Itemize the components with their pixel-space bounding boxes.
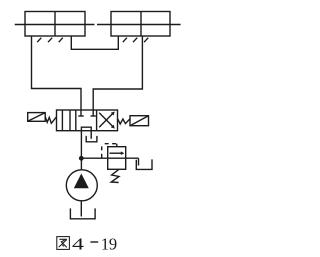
tank T2 at relief valve outlet	[136, 159, 152, 169]
tank T3 under pump	[70, 208, 95, 218]
spring right (valve centering)	[118, 118, 131, 124]
cylinder C1 body	[25, 12, 85, 37]
valve V1 position divider left	[75, 110, 77, 131]
valve V1 position divider right	[96, 110, 98, 131]
relief valve outlet drop	[138, 158, 140, 165]
wire series link: cylinder C1 rod port to cylinder C2 cap port	[71, 36, 118, 49]
junction node dot	[79, 156, 84, 161]
svg-text:4: 4	[72, 234, 84, 253]
valve V1 right position crossed arrow 2	[99, 113, 115, 129]
spring left (valve centering)	[45, 117, 56, 124]
cylinder C2 body	[111, 12, 170, 37]
cylinder C2 rod	[97, 24, 181, 26]
valve V1 right position crossed arrow 1	[99, 112, 115, 128]
valve V1 left position flow line 2	[69, 110, 71, 131]
solenoid Y2 (right)	[130, 116, 149, 126]
wire A: cylinder C1 cap port to valve port A	[32, 36, 82, 110]
relief valve F1 flow arrow	[110, 151, 125, 155]
valve V1 P port line to pump	[80, 131, 82, 170]
relief valve F1 spring	[111, 169, 119, 182]
cylinder C1 rod	[15, 24, 95, 26]
cylinder C1 piston	[54, 12, 56, 37]
valve V1 center blocked port A	[78, 110, 83, 116]
pressure line to relief valve	[81, 157, 138, 159]
relief valve F1 body	[108, 147, 126, 170]
directional valve V1 body	[57, 110, 118, 131]
tank T1 under valve	[86, 136, 97, 142]
cylinder C1 mounting hatch	[37, 38, 63, 43]
solenoid Y1 (left)	[28, 113, 46, 122]
caption hanzi TU (图) drawn as vector	[57, 237, 70, 250]
cylinder C2 mounting hatch	[123, 38, 148, 43]
wire B: cylinder C2 rod port to valve port B	[93, 36, 142, 110]
relief valve F1 pilot line (dashed)	[102, 144, 117, 158]
pump P1 triangle	[74, 174, 89, 189]
pump P1 suction line	[80, 201, 82, 217]
valve V1 center blocked port B	[91, 110, 96, 116]
pump P1 circle	[66, 170, 97, 201]
cylinder C2 piston	[140, 12, 142, 37]
svg-text:9: 9	[109, 234, 117, 253]
valve V1 T port leg	[90, 131, 92, 139]
relief valve F1 pilot stub	[116, 144, 118, 147]
valve V1 left position flow line 1	[61, 110, 63, 131]
valve V1 center P-T bypass arch	[81, 127, 91, 131]
